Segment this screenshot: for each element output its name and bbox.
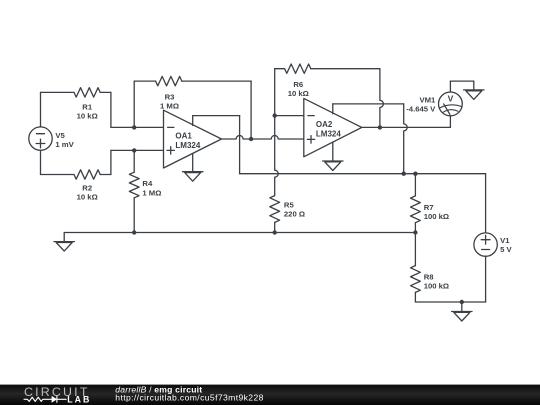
op-amp OA1: [164, 110, 222, 168]
wire R3 feedback left: [133, 81, 135, 127]
svg-text:R4: R4: [142, 179, 153, 188]
svg-text:100 kΩ: 100 kΩ: [424, 282, 449, 291]
op-amp OA2: [304, 98, 362, 156]
svg-text:VM1: VM1: [419, 96, 436, 105]
svg-text:1 MΩ: 1 MΩ: [142, 188, 161, 197]
resistor R5: [270, 196, 280, 223]
wire R6 right: [311, 68, 380, 70]
wire V5 bottom to R2: [40, 150, 42, 174]
node OA2 V+ rail junction: [402, 172, 406, 176]
resistor R6: [285, 64, 311, 73]
resistor R2: [74, 170, 100, 179]
svg-text:R8: R8: [424, 272, 435, 281]
wire bottom ground lead: [461, 302, 463, 312]
svg-text:10 kΩ: 10 kΩ: [77, 192, 98, 201]
resistor R4: [129, 172, 139, 198]
svg-text:R1: R1: [82, 102, 93, 111]
svg-text:100 kΩ: 100 kΩ: [424, 212, 449, 221]
source V1: [474, 233, 497, 256]
node R4 reference junction: [132, 230, 136, 234]
svg-text:R7: R7: [424, 203, 434, 212]
wire R5 vertical: [275, 116, 279, 196]
node R7 R8 reference junction: [413, 230, 417, 234]
svg-text:R2: R2: [82, 183, 92, 192]
resistor R7 wires: [414, 174, 416, 196]
svg-text:220 Ω: 220 Ω: [284, 210, 305, 219]
svg-text:1 MΩ: 1 MΩ: [160, 102, 179, 111]
resistor R7: [411, 196, 421, 223]
wire V5 top to R1: [40, 92, 42, 127]
resistor R8: [411, 266, 421, 293]
wire R3 feedback right: [182, 80, 251, 82]
wire reference rail: [64, 232, 415, 234]
wire OA2 V- pin: [332, 142, 334, 161]
svg-text:LM324: LM324: [175, 141, 200, 150]
svg-text:R5: R5: [284, 200, 295, 209]
node R6 to OA2 output junction: [378, 125, 382, 129]
svg-text:10 kΩ: 10 kΩ: [288, 89, 309, 98]
node R7 rail junction: [413, 172, 417, 176]
wire R2 to OA1 non-inverting input: [100, 174, 111, 176]
svg-text:-4.645 V: -4.645 V: [406, 105, 436, 114]
svg-text:5 V: 5 V: [500, 245, 512, 254]
node R3 to output junction: [249, 137, 253, 141]
ground VM1: [464, 90, 484, 100]
wire OA2 output: [362, 126, 451, 128]
wire R1 to OA1 inverting input: [100, 91, 111, 93]
svg-text:OA1: OA1: [175, 132, 192, 141]
svg-text:OA2: OA2: [316, 120, 333, 129]
svg-text:V: V: [448, 94, 454, 104]
resistor R4 wires: [133, 150, 135, 172]
resistor R8 wires: [414, 233, 416, 266]
resistor R3: [156, 76, 182, 85]
voltmeter VM1: [439, 92, 463, 116]
ground OA2: [323, 161, 343, 171]
ground left: [54, 242, 74, 252]
node bottom ground junction: [460, 300, 464, 304]
node minus input junction: [132, 125, 136, 129]
svg-text:1 mV: 1 mV: [55, 140, 74, 149]
wire VM1 bottom lead: [449, 116, 451, 128]
wire OA2 minus input: [275, 115, 304, 117]
svg-text:http://circuitlab.com/cu5f73mt: http://circuitlab.com/cu5f73mt9k228: [115, 393, 263, 403]
wire V1 bottom: [485, 256, 487, 302]
wire OA1 V- pin: [192, 154, 194, 172]
source V5: [29, 127, 52, 150]
node plus input junction: [132, 148, 136, 152]
resistor R1: [74, 88, 100, 97]
node OA2 minus junction: [273, 113, 277, 117]
svg-text:R6: R6: [293, 80, 303, 89]
wire OA1 V+ down to rail: [239, 116, 241, 174]
logo resistor and diode symbol: [24, 396, 66, 402]
wire OA1 V+ pin: [192, 116, 194, 126]
wire V+ rail: [240, 173, 486, 175]
svg-text:R3: R3: [165, 93, 175, 102]
wire VM1 top lead: [449, 81, 451, 92]
wire OA2 V+ down to rail: [404, 104, 408, 174]
svg-text:LAB: LAB: [67, 394, 90, 404]
svg-text:10 kΩ: 10 kΩ: [77, 111, 98, 120]
ground bottom: [452, 312, 472, 322]
node R5 reference junction: [273, 230, 277, 234]
wire OA1 output to OA2 non-inverting input: [222, 136, 304, 140]
wire R6 left: [275, 68, 285, 70]
svg-text:V5: V5: [55, 131, 65, 140]
ground OA1: [183, 172, 203, 182]
wire OA2 V+ pin: [332, 104, 334, 114]
svg-text:V1: V1: [500, 236, 510, 245]
svg-text:LM324: LM324: [316, 130, 341, 139]
